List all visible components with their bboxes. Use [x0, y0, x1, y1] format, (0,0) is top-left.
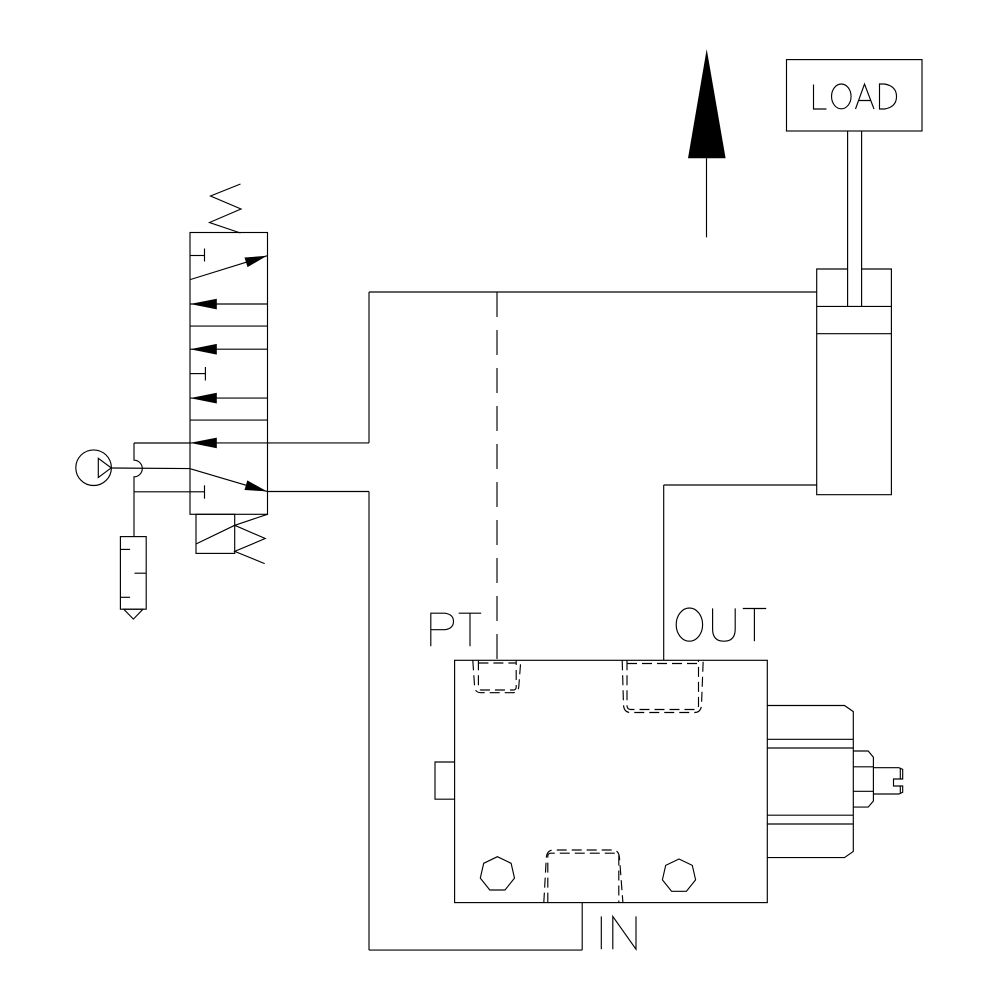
OUT port outer (dashed) — [622, 660, 703, 712]
locknut hex H2 (small) — [853, 751, 873, 807]
wire trunk to valve bottom port (y=491.8) — [134, 491, 190, 493]
LOAD text D — [880, 84, 897, 109]
flow arrow A2 (left) — [190, 299, 268, 310]
label PT: letter T — [459, 613, 482, 646]
LOAD text O — [832, 84, 852, 109]
wire OUT downcomer — [663, 485, 665, 660]
wire trunk to valve top port (y=443) — [134, 442, 190, 444]
hex H1 facet line 2a — [767, 814, 853, 816]
drain F1 tick left lower — [120, 596, 130, 598]
hand pump P1 circle — [76, 450, 112, 486]
wire OUT to cylinder bottom — [664, 484, 817, 486]
wire top run to cylinder — [369, 291, 817, 293]
hex H1 facet line 2b — [767, 823, 853, 825]
hex H1 facet line 1b — [767, 747, 853, 749]
flow arrow A6 (diagonal down-right) — [191, 469, 268, 492]
label OUT: letter O — [676, 608, 702, 641]
spring S2 (bottom of valve, diagonal) — [235, 514, 268, 563]
IN port outer (dashed) — [544, 850, 623, 903]
piston rod right line — [861, 131, 863, 306]
drain F1 bottom triangle — [124, 609, 143, 619]
label PT: letter P — [431, 613, 454, 646]
valve block B1 body — [455, 660, 768, 902]
hex H2 facet line b — [853, 790, 873, 792]
valve block left nub — [435, 762, 455, 799]
OUT port inner (dashed) — [627, 660, 699, 709]
spring S1 (top of directional valve) — [210, 184, 242, 233]
cylinder C1 piston top — [817, 305, 892, 307]
cylinder C1 body — [817, 269, 892, 495]
wire riser up — [368, 292, 370, 443]
PT port outer (dashed) — [473, 660, 521, 692]
label OUT: letter U — [713, 608, 736, 641]
pilot line (dashed) to PT — [496, 292, 498, 660]
wire downcomer — [368, 492, 370, 951]
LOAD text L — [814, 85, 827, 110]
valve V1 position divider 2 — [190, 419, 268, 421]
wire bottom run — [369, 949, 582, 951]
reservoir/drain F1 body — [120, 537, 146, 610]
IN port inner (dashed) — [548, 853, 619, 902]
solenoid proportional diagonal — [196, 525, 235, 544]
load direction arrow (filled) — [688, 49, 726, 158]
label OUT: letter T — [743, 609, 766, 642]
adjusting screw with slot — [873, 768, 902, 794]
label IN: letter I — [600, 916, 602, 949]
drain F1 tick right middle — [135, 572, 147, 574]
directional valve V1 body — [190, 233, 268, 515]
hand pump P1 triangle — [98, 458, 111, 477]
wire valve right port A to riser — [268, 442, 370, 444]
LOAD box — [787, 60, 923, 131]
LOAD text A — [856, 84, 875, 109]
flow arrow A4 (left) — [190, 393, 268, 404]
blocked-port T symbol T1 — [190, 249, 205, 262]
solenoid box K1 — [196, 514, 235, 553]
relief adjuster hex H1 (large) — [767, 706, 853, 858]
flow arrow A3 (left) — [190, 344, 268, 355]
label IN: letter N — [613, 916, 636, 949]
wire pump to valve (y=468) — [111, 467, 190, 470]
wire IN riser — [581, 903, 583, 951]
load arrow stem — [706, 158, 708, 237]
valve V1 position divider 1 — [190, 325, 268, 327]
screw chamfer inner line bottom — [899, 786, 901, 793]
drain F1 tick left upper — [120, 548, 130, 550]
PT port inner (dashed) — [478, 660, 516, 690]
piston rod left line — [847, 131, 849, 306]
flow arrow A5 (left) — [190, 438, 268, 449]
screw chamfer inner line top — [899, 768, 901, 779]
blocked-port T symbol T2 — [190, 367, 205, 381]
bolt head BH2 (heptagon) — [662, 859, 695, 891]
hex H1 facet line 1a — [767, 738, 853, 740]
wire trunk with hop over pump line — [134, 443, 142, 537]
hex H2 facet line a — [853, 766, 873, 768]
wire valve right port B to downcomer — [268, 491, 370, 493]
cylinder C1 piston bottom — [817, 333, 892, 335]
bolt head BH1 (heptagon) — [480, 857, 514, 890]
flow arrow A1 (diagonal up-right) — [191, 256, 268, 280]
blocked-port T symbol T3 — [190, 485, 205, 498]
